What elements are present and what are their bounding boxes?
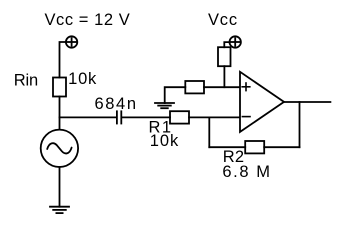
wire Rin bottom to source top bbox=[59, 97, 61, 130]
capacitor C1 684n bbox=[117, 111, 121, 123]
wire feedback bottom left bbox=[209, 146, 245, 148]
svg-text:Vcc = 12 V: Vcc = 12 V bbox=[45, 11, 131, 29]
ground (source) bbox=[50, 207, 69, 213]
wire bias resistor to ground bbox=[165, 87, 186, 103]
node at source top / wire to capacitor bbox=[60, 116, 117, 118]
resistor R1 bbox=[170, 111, 189, 123]
wire capacitor to R1 bbox=[122, 116, 170, 118]
wire source bottom to ground bbox=[59, 167, 61, 207]
op-amp U1 bbox=[240, 72, 284, 132]
resistor pull-up (Vcc) bbox=[218, 47, 231, 66]
wire bias junction down to + input bbox=[223, 66, 225, 87]
wire feedback tap down bbox=[208, 117, 210, 147]
wire from Vcc symbol to Rin top bbox=[60, 42, 66, 78]
svg-text:6.8 M: 6.8 M bbox=[222, 163, 271, 181]
ground (bias) bbox=[155, 103, 174, 108]
svg-text:Rin: Rin bbox=[14, 72, 38, 90]
svg-text:10k: 10k bbox=[150, 132, 179, 150]
resistor bias (to ground) bbox=[185, 81, 204, 93]
svg-text:10k: 10k bbox=[68, 70, 97, 88]
wire noninverting input bbox=[204, 86, 239, 88]
op-amp - marker bbox=[242, 116, 250, 118]
wire feedback bottom right bbox=[264, 146, 299, 148]
wire pull-up top to Vcc symbol bbox=[224, 42, 229, 47]
op-amp + marker bbox=[242, 83, 250, 91]
power symbol Vcc (left) bbox=[66, 36, 77, 47]
op-amp output wire bbox=[284, 101, 330, 103]
resistor Rin bbox=[53, 78, 66, 97]
ac source V1 bbox=[41, 130, 78, 167]
wire R1 to inverting input bbox=[189, 116, 239, 118]
wire feedback up to output bbox=[299, 102, 301, 147]
svg-text:684n: 684n bbox=[95, 95, 138, 113]
svg-text:Vcc: Vcc bbox=[208, 11, 238, 29]
power symbol Vcc (right) bbox=[230, 36, 241, 47]
resistor R2 bbox=[245, 141, 264, 153]
